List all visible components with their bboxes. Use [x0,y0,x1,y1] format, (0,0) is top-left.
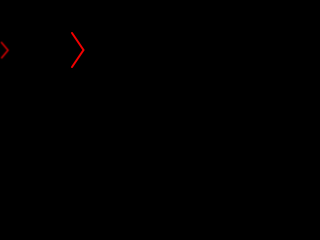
left chevron (small, soft) [2,43,9,58]
background [0,0,100,100]
right chevron (large, bright) [72,33,84,67]
